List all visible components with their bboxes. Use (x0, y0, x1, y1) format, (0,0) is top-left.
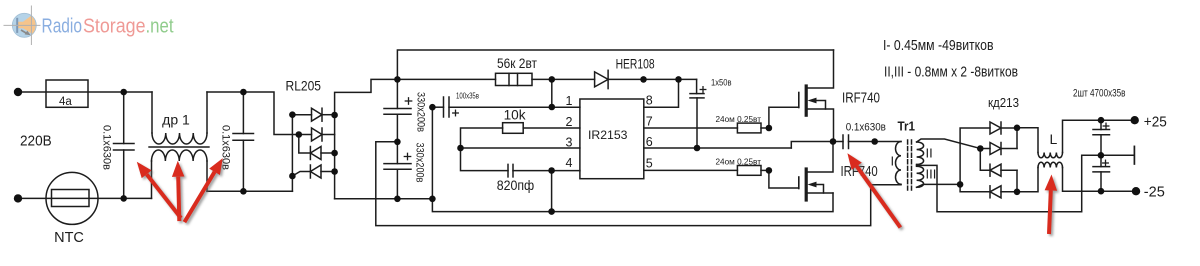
wire bottom jog up to choke (151, 161, 153, 198)
svg-text:4: 4 (566, 156, 573, 170)
capacitor C1 0.1x630v left leads (123, 92, 125, 144)
svg-text:IR2153: IR2153 (588, 128, 628, 142)
svg-text:1: 1 (566, 94, 573, 108)
svg-text:24ом 0.25вт: 24ом 0.25вт (716, 157, 762, 166)
capacitor C9 4700x35v top (1100, 120, 1102, 129)
polarity mark C3 (405, 100, 411, 102)
resistor R1 56k 2w box (496, 73, 533, 85)
wire ground rail (431, 107, 433, 199)
wire bridge right bus (334, 115, 336, 199)
wire row2 to row3 link (980, 149, 990, 171)
wire bulk cap bottom (396, 169, 398, 199)
transistor Q1 source (806, 109, 833, 142)
transformer T1 primary winding (896, 142, 902, 185)
NTC thermistor circle (46, 172, 98, 224)
diode D5 HER108 (595, 72, 609, 87)
wire bottom AC to bridge (207, 190, 292, 192)
wire output midpoint (1101, 154, 1134, 156)
logo base bar (16, 18, 18, 33)
svg-text:8: 8 (646, 94, 653, 108)
capacitor C7 820pf (507, 164, 509, 177)
polarity mark C5 (453, 112, 459, 114)
capacitor C8 0.1x630v plates (842, 135, 844, 149)
diode D1 row1 (292, 114, 311, 116)
wire pin2 (523, 127, 580, 129)
svg-text:-25: -25 (1144, 184, 1165, 201)
wire minus bus (1016, 170, 1018, 192)
logo orange horn speaker (17, 14, 36, 35)
svg-text:RL205: RL205 (286, 79, 322, 94)
wire pin4 corner (461, 148, 509, 171)
transistor Q2 IRF740 gate bar (798, 177, 800, 189)
svg-text:II: II (926, 146, 933, 161)
svg-text:Storage: Storage (83, 15, 146, 37)
wire source rail (432, 193, 833, 212)
logo globe circle (12, 13, 36, 37)
resistor R2 10k box (503, 123, 524, 134)
wire half-bridge return (376, 142, 901, 226)
red arrow choke (178, 177, 179, 221)
wire pin8 path (644, 79, 679, 107)
svg-text:III: III (926, 167, 937, 182)
capacitor C2 0.1x630v right leads (242, 92, 244, 134)
terminal dots (14, 88, 22, 96)
svg-text:II,III - 0.8мм x 2 -8витков: II,III - 0.8мм x 2 -8витков (884, 64, 1018, 81)
svg-text:100x35в: 100x35в (456, 92, 479, 101)
wire minus to choke (1017, 168, 1038, 192)
svg-text:330x200в: 330x200в (415, 92, 427, 132)
wire pin7 (644, 127, 738, 129)
diode D6 kd213 row1 (990, 122, 1001, 134)
svg-text:0.1x630в: 0.1x630в (101, 125, 113, 170)
capacitor C5 100x35v plates (443, 97, 445, 117)
wire secondary bottom lead (917, 184, 961, 187)
fuse F1 4a box (46, 80, 88, 107)
transistor Q2 arrow (814, 185, 824, 194)
svg-text:1x50в: 1x50в (711, 78, 732, 88)
svg-text:др 1: др 1 (162, 112, 190, 128)
svg-text:+25: +25 (1144, 114, 1167, 131)
wire mid node (833, 141, 843, 143)
wire AC line top left (18, 91, 152, 93)
wire choke bottom right (1063, 168, 1137, 192)
transformer T1 winding III (917, 166, 924, 187)
svg-text:кд213: кд213 (988, 95, 1019, 110)
svg-text:3: 3 (566, 135, 573, 149)
svg-text:10k: 10k (504, 108, 526, 123)
wire pin5 gate path (761, 169, 769, 171)
svg-text:IRF740: IRF740 (842, 91, 880, 107)
transformer T1 winding II (917, 142, 924, 165)
red arrow output choke (1049, 191, 1051, 235)
wire pin3 (461, 147, 580, 149)
wire rectifier left bus (960, 128, 990, 192)
choke dr1 bottom winding (152, 150, 208, 161)
diode D3 row3 (310, 147, 321, 160)
red arrow snubber cap (857, 166, 901, 227)
svg-text:56к 2вт: 56к 2вт (497, 56, 537, 71)
red arrow right cap (184, 172, 214, 222)
wire bridge left bus (291, 115, 293, 192)
junction dots (120, 89, 127, 96)
wire pin7 gate path (761, 127, 769, 129)
transistor Q2 drain (806, 142, 833, 173)
wire choke bottom down (206, 161, 208, 191)
capacitor C10 4700x35v bottom (1100, 155, 1102, 166)
capacitor C4 330x200v plates (384, 163, 411, 165)
svg-text:24ом 0.25вт: 24ом 0.25вт (716, 115, 762, 124)
wire main vertical top (397, 50, 833, 109)
wire AC line bottom left (18, 197, 152, 199)
svg-text:2: 2 (566, 115, 573, 129)
transistor Q1 IRF740 gate bar (798, 93, 800, 108)
svg-text:.net: .net (146, 15, 174, 37)
transistor Q1 drain (806, 50, 833, 88)
wire choke top right (1063, 120, 1135, 152)
transformer T1 core (907, 140, 909, 190)
wire top jog down to choke (151, 92, 153, 133)
wire pin1 rail (449, 106, 580, 108)
svg-text:7: 7 (646, 115, 653, 129)
diode D8 kd213 row3 (990, 164, 1001, 176)
choke dr1 core line (149, 146, 209, 148)
diode D9 kd213 row4 (990, 186, 1001, 198)
inductor L bottom winding (1038, 162, 1063, 167)
wire choke top up (206, 92, 208, 133)
transistor Q1 channel (805, 86, 808, 115)
diode D7 kd213 row2 (980, 148, 990, 150)
wire top AC to bridge corner (207, 92, 299, 135)
svg-text:5: 5 (646, 157, 653, 171)
svg-text:2шт 4700x35в: 2шт 4700x35в (1073, 88, 1126, 100)
svg-text:330x200в: 330x200в (414, 143, 426, 183)
wire bridge minus out (335, 198, 433, 200)
polarity mark C10 (1103, 162, 1109, 164)
svg-text:L: L (1050, 131, 1058, 147)
wire pin2 corner (461, 128, 503, 148)
capacitor C1 plates (114, 143, 135, 145)
wire pin4 to ground (551, 171, 553, 212)
svg-text:0.1x630в: 0.1x630в (846, 122, 886, 134)
resistor R4 24ohm box (737, 166, 761, 176)
wire 56k rail left (397, 78, 495, 80)
svg-text:NTC: NTC (54, 230, 84, 246)
wire secondary center tap (917, 155, 1101, 212)
wire plus to choke (1017, 128, 1038, 153)
wire to primary (875, 141, 901, 143)
logo crosshair (30, 6, 32, 46)
svg-text:I- 0.45мм -49витков: I- 0.45мм -49витков (883, 37, 994, 54)
resistor R3 24ohm box (737, 123, 761, 133)
capacitor C2 plates (233, 133, 254, 135)
logo emitter arrow (21, 30, 27, 34)
wire plus bus (1016, 128, 1018, 149)
wire secondary top lead (917, 139, 981, 149)
wire vcc drop (551, 79, 553, 107)
transistor Q1 arrow (814, 101, 826, 110)
wire pin6 mid (644, 147, 792, 149)
wire bridge plus staircase (335, 79, 398, 114)
wire between bulk caps (396, 114, 398, 163)
svg-text:I: I (891, 154, 895, 169)
polarity mark C9 (1103, 125, 1109, 127)
diode D2 row2 (299, 134, 312, 136)
polarity mark C4 (404, 156, 410, 158)
svg-text:Radio: Radio (42, 15, 83, 37)
inductor L top winding (1038, 153, 1063, 158)
svg-text:820пф: 820пф (497, 177, 535, 193)
wire 56k to diode (532, 78, 595, 80)
polarity mark C6 (700, 89, 706, 91)
diode D4 row4 (292, 172, 310, 177)
wire pin4 (513, 170, 580, 172)
NTC inner box (52, 190, 90, 207)
svg-text:HER108: HER108 (616, 57, 655, 72)
svg-text:6: 6 (646, 135, 653, 149)
red arrow left cap (147, 174, 181, 218)
op-amp U1 IR2153 box (580, 99, 644, 179)
choke dr1 top winding (152, 133, 207, 144)
transistor Q2 source (806, 192, 833, 194)
wire pin5 (644, 169, 738, 171)
svg-text:Tr1: Tr1 (898, 119, 916, 134)
bridge inner bus row2-row3 (299, 135, 311, 154)
capacitor C3 330x200v plates (384, 108, 411, 110)
transistor Q2 channel (805, 169, 808, 200)
capacitor C6 1x50v (696, 79, 698, 93)
svg-text:220В: 220В (20, 133, 52, 150)
svg-text:4a: 4a (59, 96, 72, 108)
common terminal bar (1133, 146, 1135, 164)
